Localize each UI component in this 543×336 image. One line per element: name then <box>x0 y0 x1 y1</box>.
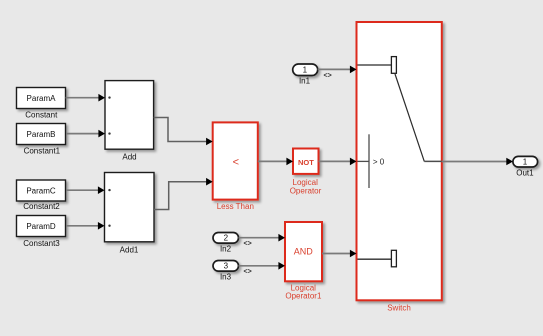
svg-text:<>: <> <box>244 241 252 248</box>
svg-text:In2: In2 <box>220 245 232 254</box>
label Logical Operator <box>290 178 322 196</box>
wire ParamB to Add <box>66 130 105 138</box>
svg-text:Less Than: Less Than <box>217 202 254 211</box>
svg-text:ParamD: ParamD <box>26 222 56 231</box>
switch inner bottom port contact rect <box>391 250 396 266</box>
svg-text:ParamC: ParamC <box>26 187 56 196</box>
svg-text:Constant3: Constant3 <box>23 239 60 248</box>
svg-text:<>: <> <box>324 73 332 80</box>
wire ParamC to Add1 <box>66 186 105 194</box>
svg-text:Logical: Logical <box>293 178 319 187</box>
svg-text:ParamB: ParamB <box>27 130 56 139</box>
svg-text:<>: <> <box>244 269 252 276</box>
sum block Add1 <box>105 173 155 242</box>
label Logical Operator1 <box>285 283 322 300</box>
svg-text:Constant: Constant <box>25 110 58 119</box>
svg-text:2: 2 <box>224 234 229 243</box>
switch selector diagonal wire <box>395 74 424 161</box>
logical operator block U2 AND <box>285 222 322 281</box>
logical operator block U1 NOT <box>293 149 319 174</box>
svg-text:In1: In1 <box>299 77 311 86</box>
switch inner top port wire <box>358 64 392 66</box>
constant C2 block "ParamB" <box>17 124 66 145</box>
wire Less Than to NOT <box>258 158 293 166</box>
wire Switch to Out1 <box>442 158 513 166</box>
svg-text:Constant2: Constant2 <box>23 202 60 211</box>
switch inner middle port wire <box>358 160 370 162</box>
wire Add to Less Than (elbow) <box>154 118 213 146</box>
wire NOT to Switch middle input <box>319 158 357 166</box>
wire In2 to AND <box>239 234 286 242</box>
constant C3 block "ParamC" <box>17 180 66 201</box>
inport In3 <box>213 261 239 272</box>
inport In1 <box>293 64 318 76</box>
wire Add1 to Less Than (elbow) <box>154 178 213 210</box>
wire ParamD to Add1 <box>66 222 105 230</box>
switch inner output wire <box>424 160 442 162</box>
wire ParamA to Add <box>66 94 106 102</box>
wire AND to Switch bottom input <box>322 250 357 258</box>
constant C1 block "ParamA" <box>17 88 66 109</box>
svg-text:3: 3 <box>224 262 229 271</box>
svg-text:Operator: Operator <box>290 187 322 196</box>
svg-text:Switch: Switch <box>387 304 411 313</box>
svg-text:NOT: NOT <box>298 158 314 167</box>
relational operator block Less Than <box>213 122 258 199</box>
outport Out1 <box>513 156 538 167</box>
svg-text:Constant1: Constant1 <box>24 147 61 156</box>
switch threshold divider line <box>368 134 370 188</box>
svg-text:<: < <box>233 157 239 169</box>
wire In3 to AND <box>239 262 286 270</box>
svg-text:> 0: > 0 <box>373 157 385 166</box>
inport In2 <box>213 233 239 244</box>
sum block Add <box>105 81 154 150</box>
svg-text:Add1: Add1 <box>120 245 139 254</box>
svg-text:Add: Add <box>122 153 136 162</box>
svg-text:ParamA: ParamA <box>27 94 57 103</box>
constant C4 block "ParamD" <box>17 216 66 237</box>
svg-text:Operator1: Operator1 <box>285 291 322 300</box>
svg-text:Out1: Out1 <box>516 168 534 177</box>
svg-text:AND: AND <box>294 247 314 257</box>
switch block Switch <box>357 22 442 300</box>
switch inner bottom port wire <box>358 258 392 260</box>
switch inner top port contact rect <box>391 57 396 74</box>
wire In1 to Switch top input <box>318 66 357 74</box>
svg-text:In3: In3 <box>220 273 232 282</box>
svg-text:1: 1 <box>303 66 308 75</box>
svg-text:1: 1 <box>523 158 528 167</box>
